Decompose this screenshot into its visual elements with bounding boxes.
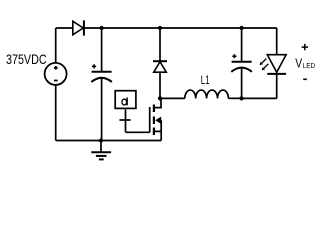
wire output cap top lead	[241, 28, 243, 61]
wire switch node to inductor	[160, 97, 185, 99]
wire input cap bottom lead	[101, 78, 103, 140]
wire inductor to output node	[228, 97, 241, 99]
label VLED	[295, 56, 302, 71]
label - (VLED minus)	[303, 78, 307, 80]
wire driver output vertical	[125, 110, 127, 133]
LED light arrow lower	[262, 64, 269, 71]
capacitor C2 output electrolytic	[231, 54, 252, 72]
gate driver U1 box	[115, 91, 136, 109]
wire freewheel top lead	[159, 28, 161, 61]
wire input cap top lead	[101, 28, 103, 71]
voltage source V1	[45, 63, 67, 85]
MOSFET Q1 gate	[149, 107, 151, 132]
wire LED branch bottom	[276, 75, 278, 98]
gate drive crossbar	[119, 119, 130, 121]
wire gate drive horizontal	[126, 131, 150, 133]
label + (VLED plus)	[302, 44, 308, 50]
capacitor C1 input electrolytic	[91, 64, 112, 82]
MOSFET Q1 drain lead	[155, 98, 161, 107]
diode D2 freewheeling	[153, 61, 167, 72]
ground	[91, 141, 111, 160]
wire LED branch top	[276, 28, 278, 55]
MOSFET Q1 body arrow	[155, 117, 161, 124]
LED light arrow upper	[260, 59, 267, 66]
node output cap top	[240, 26, 244, 30]
wire top-left horizontal	[56, 27, 73, 29]
node ground junction	[99, 138, 103, 142]
node output cap bottom	[239, 96, 243, 100]
node freewheel diode top	[158, 26, 162, 30]
inductor L1	[185, 90, 229, 98]
wire freewheel bottom lead	[159, 72, 161, 98]
wire output cap bottom lead	[241, 68, 243, 98]
label d in driver box	[122, 97, 127, 105]
MOSFET Q1 source lead	[155, 120, 162, 140]
wire top rail	[84, 27, 277, 29]
label 375VDC	[6, 51, 47, 67]
wire bottom rail	[56, 140, 162, 142]
label L1	[201, 75, 210, 87]
MOSFET Q1 channel bars	[153, 105, 155, 136]
svg-text:LED: LED	[303, 61, 316, 70]
wire output node to LED branch	[242, 97, 277, 99]
node switch node	[158, 96, 162, 100]
svg-text:L1: L1	[201, 75, 210, 87]
svg-text:375VDC: 375VDC	[6, 51, 47, 67]
wire left vertical (source bottom)	[55, 85, 57, 141]
svg-text:V: V	[295, 56, 302, 71]
node input cap junction	[100, 26, 104, 30]
LED D3	[267, 55, 286, 74]
wire left vertical (source top)	[55, 28, 57, 63]
diode D1 input	[73, 20, 84, 35]
